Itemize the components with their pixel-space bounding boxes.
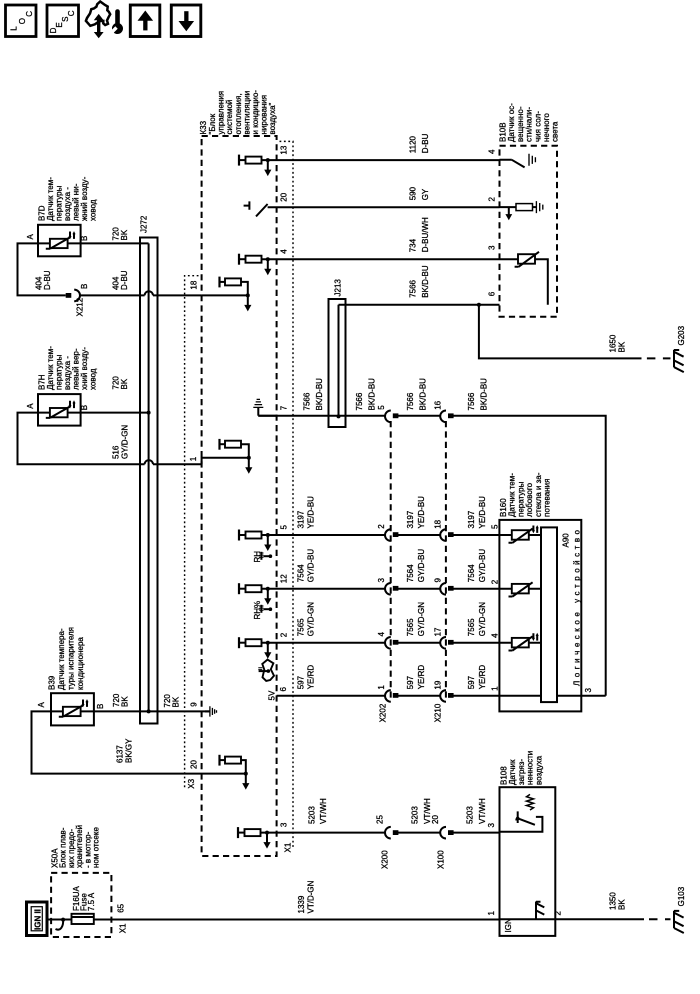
svg-text:16: 16 — [433, 400, 442, 409]
svg-text:лобового: лобового — [525, 482, 534, 517]
svg-text:потевания: потевания — [543, 479, 552, 517]
B160 thermistor at pin 4 — [499, 633, 541, 651]
svg-text:ховод: ховод — [89, 368, 98, 390]
svg-text:Датчик ос-: Датчик ос- — [507, 103, 516, 142]
svg-text:A: A — [26, 403, 35, 409]
svg-text:кондиционера: кондиционера — [76, 637, 85, 690]
svg-text:2: 2 — [490, 579, 499, 584]
B160 thermistor at pin 2 — [499, 582, 541, 596]
svg-text:7566: 7566 — [409, 279, 418, 297]
connector X100 pin 20 symbol — [431, 815, 454, 869]
svg-text:YE/RD: YE/RD — [307, 665, 316, 690]
svg-text:BK/D-BU: BK/D-BU — [421, 265, 430, 298]
svg-text:4: 4 — [490, 633, 499, 638]
svg-text:6: 6 — [279, 687, 288, 692]
svg-text:света: света — [551, 121, 560, 142]
wire 720 BK B7D to J272 — [81, 227, 149, 244]
svg-text:597: 597 — [297, 675, 306, 689]
svg-text:9: 9 — [190, 702, 199, 707]
svg-text:B: B — [80, 405, 89, 410]
svg-text:7.5 A: 7.5 A — [87, 892, 96, 911]
B10B pin 3 internal photo/thermo element — [488, 245, 548, 305]
connector X200 pin 25 symbol — [375, 815, 398, 869]
svg-text:стекла и за-: стекла и за- — [534, 472, 543, 517]
windshield temperature sensor B160 box — [499, 472, 581, 711]
temperature sensor B7D box — [26, 176, 98, 256]
svg-text:IGN II: IGN II — [34, 909, 43, 930]
svg-text:сти/нали-: сти/нали- — [525, 107, 534, 142]
svg-text:516: 516 — [112, 445, 121, 459]
svg-text:3: 3 — [488, 245, 497, 250]
svg-text:4: 4 — [488, 149, 497, 154]
svg-text:X212: X212 — [76, 297, 85, 316]
svg-text:4: 4 — [377, 632, 386, 637]
svg-text:X1: X1 — [118, 923, 127, 933]
svg-text:X202: X202 — [379, 703, 388, 722]
wire 7565 GY/D-GN K33 pin 2 to B160 pin 4 — [262, 602, 500, 643]
svg-text:BK: BK — [120, 696, 129, 707]
svg-text:VT/WH: VT/WH — [478, 798, 487, 824]
svg-text:1650: 1650 — [609, 334, 618, 352]
svg-text:GY/D-BU: GY/D-BU — [307, 549, 316, 583]
svg-text:7565: 7565 — [297, 618, 306, 636]
svg-text:2: 2 — [554, 911, 563, 916]
ground G203 — [674, 325, 686, 372]
svg-text:B: B — [80, 236, 89, 241]
sunlight sensor B10B box — [499, 103, 560, 317]
svg-text:G203: G203 — [677, 325, 686, 345]
K33 pin 2 internal pull-up — [239, 632, 289, 659]
svg-text:12: 12 — [280, 574, 289, 583]
K33 pin 9 internal ground — [190, 702, 217, 717]
svg-text:YE/D-BU: YE/D-BU — [478, 496, 487, 529]
wire 7566 BK/D-BU K33 pin 7 to J213 to X202/X210 and down to B160 pin 3 — [258, 378, 605, 696]
svg-text:5203: 5203 — [411, 806, 420, 824]
K33 pin 5 internal pull-up — [239, 525, 289, 552]
connector X210 pin 18 symbol — [433, 519, 453, 541]
svg-text:BK/D-BU: BK/D-BU — [480, 378, 489, 411]
svg-text:O: O — [18, 18, 27, 24]
svg-text:597: 597 — [406, 675, 415, 689]
connector X212 — [66, 284, 89, 317]
svg-text:J213: J213 — [334, 279, 343, 297]
IGN II badge — [27, 902, 48, 936]
wire 3197 YE/D-BU K33 pin 5 to B160 pin 5 — [262, 496, 500, 535]
svg-text:3197: 3197 — [467, 510, 476, 528]
svg-text:20: 20 — [280, 192, 289, 201]
svg-text:VT/WH: VT/WH — [319, 798, 328, 824]
toolbar button down-arrow — [171, 5, 201, 37]
svg-text:нечного: нечного — [542, 113, 551, 142]
svg-text:6137: 6137 — [116, 745, 125, 763]
svg-text:A: A — [26, 234, 35, 240]
K33 5V reference symbol — [258, 660, 276, 701]
svg-text:2: 2 — [488, 197, 497, 202]
svg-text:6: 6 — [488, 291, 497, 296]
wire 404 D-BU B7D pin A to X212 — [18, 243, 66, 295]
svg-text:ном отсеке: ном отсеке — [92, 827, 101, 868]
svg-text:вещенно-: вещенно- — [516, 106, 525, 142]
svg-text:J272: J272 — [140, 215, 149, 233]
toolbar icon vehicle-with-arrows-and-wrench — [86, 2, 123, 39]
wire IGN II to fuse F16UA — [47, 919, 72, 921]
svg-text:4: 4 — [280, 249, 289, 254]
svg-text:YE/D-BU: YE/D-BU — [307, 496, 316, 529]
svg-text:D-BU: D-BU — [43, 270, 52, 290]
svg-text:3: 3 — [377, 578, 386, 583]
K33 RH humidity element symbol — [253, 551, 272, 563]
svg-text:GY/D-GN: GY/D-GN — [307, 602, 316, 636]
svg-text:5203: 5203 — [466, 806, 475, 824]
svg-text:воздуха: воздуха — [534, 755, 543, 785]
wire 6137 BK/GY B39 pin A to K33 X3 pin 20 — [32, 711, 246, 773]
in-line connector X202 dashed line — [379, 421, 391, 722]
svg-text:7564: 7564 — [467, 564, 476, 582]
svg-text:GY: GY — [421, 188, 430, 200]
svg-text:1120: 1120 — [409, 135, 418, 153]
svg-text:65: 65 — [117, 903, 126, 912]
svg-text:3: 3 — [487, 823, 496, 828]
svg-text:D-BU: D-BU — [120, 270, 129, 290]
svg-text:ховод: ховод — [89, 199, 98, 221]
svg-text:19: 19 — [433, 680, 442, 689]
svg-text:GY/D-GN: GY/D-GN — [121, 425, 130, 459]
svg-text:25: 25 — [375, 815, 384, 824]
svg-text:7: 7 — [280, 405, 289, 410]
svg-text:GY/D-GN: GY/D-GN — [417, 602, 426, 636]
B160 pin 3 wire from A90 to 7566 vertical — [557, 688, 606, 696]
toolbar button DESC — [47, 5, 79, 37]
svg-text:B160: B160 — [499, 498, 508, 517]
wire 516 GY/D-GN B7H pin A to K33 pin 1 with hop over J272 — [18, 413, 202, 465]
B108 pin 3 internal heater element — [487, 794, 542, 831]
svg-text:загряз-: загряз- — [517, 759, 526, 785]
svg-text:5: 5 — [377, 405, 386, 410]
svg-text:C: C — [67, 10, 76, 16]
toolbar button LOC — [6, 5, 37, 37]
K33 pin 20 (X3) internal pull-up — [190, 755, 250, 790]
svg-text:5: 5 — [280, 525, 289, 530]
connector X210 pin 19 symbol — [433, 680, 453, 702]
svg-text:1: 1 — [377, 685, 386, 690]
svg-text:К33: К33 — [199, 120, 208, 134]
svg-text:GY/D-GN: GY/D-GN — [478, 602, 487, 636]
toolbar button up-arrow — [130, 5, 160, 37]
svg-text:D-BU: D-BU — [421, 133, 430, 153]
svg-text:ненности: ненности — [526, 751, 535, 785]
wire 5203 VT/WH K33 X1 pin 3 to B108 pin 3 — [261, 798, 500, 833]
svg-text:L: L — [9, 26, 18, 31]
B160 logic device A90 box — [541, 527, 582, 702]
svg-text:7566: 7566 — [467, 392, 476, 410]
svg-text:G103: G103 — [677, 886, 686, 906]
svg-text:2: 2 — [377, 524, 386, 529]
svg-text:BK: BK — [618, 899, 627, 910]
svg-text:BK/GY: BK/GY — [124, 738, 133, 763]
svg-text:18: 18 — [190, 280, 199, 289]
svg-text:VT/D-GN: VT/D-GN — [307, 880, 316, 913]
B7H thermistor symbol — [38, 400, 81, 418]
HVAC control module K33 box — [202, 136, 277, 856]
svg-text:YE/RD: YE/RD — [478, 665, 487, 690]
svg-text:воздуха": воздуха" — [268, 102, 277, 134]
B108 IGN label and pin 1 — [487, 911, 555, 933]
svg-text:Логическое устройство: Логическое устройство — [573, 529, 582, 686]
svg-text:B: B — [96, 704, 105, 709]
connector X3 dotted line on K33 left edge — [185, 276, 199, 789]
splice pack J213 outline — [329, 279, 346, 427]
K33 label text — [199, 90, 277, 135]
svg-text:590: 590 — [409, 186, 418, 200]
svg-text:туры испарителя: туры испарителя — [67, 627, 76, 690]
J213 internal bus wire — [337, 305, 341, 419]
B108 pin 2 internal chassis ground — [536, 902, 563, 920]
svg-text:1339: 1339 — [297, 895, 306, 913]
svg-text:BK: BK — [120, 229, 129, 240]
wire 404 D-BU X212 to K33 pin 18 with hop over J272 — [80, 270, 202, 295]
svg-text:X3: X3 — [187, 778, 196, 788]
svg-text:5: 5 — [490, 524, 499, 529]
svg-text:7565: 7565 — [467, 618, 476, 636]
wire 7564 GY/D-BU K33 pin 12 to B160 pin 2 — [262, 549, 500, 589]
svg-text:Датчик темпера-: Датчик темпера- — [57, 628, 66, 690]
bus tap curl in X50A — [56, 918, 66, 930]
wire 734 D-BU/WH K33 pin 4 to B10B pin 3 — [262, 217, 500, 259]
svg-text:B108: B108 — [500, 766, 509, 785]
K33 pin 13 internal pull-up — [239, 145, 289, 176]
K33 pin 4 internal pull-up — [239, 249, 289, 276]
svg-text:5V: 5V — [268, 690, 277, 700]
connector X202 pin 3 symbol — [377, 578, 399, 595]
svg-text:20: 20 — [190, 760, 199, 769]
B39 thermistor symbol — [51, 699, 94, 717]
wire 590 GY K33 pin 20 to B10B pin 2 — [268, 186, 500, 207]
wire 1339 VT/D-GN fuse to B108 pin 1 — [94, 880, 500, 933]
splice pack J272 outline — [140, 215, 158, 723]
temperature sensor B7H box — [26, 346, 98, 426]
K33 pin 3 (X1) internal pull-up — [238, 822, 289, 849]
svg-text:1350: 1350 — [609, 892, 618, 910]
svg-text:X100: X100 — [436, 850, 445, 869]
wire 720 BK B7H to J272 — [81, 376, 149, 413]
svg-text:18: 18 — [433, 519, 442, 528]
svg-text:B10B: B10B — [499, 122, 508, 142]
B160 thermistor at pin 5 — [499, 525, 541, 543]
svg-text:7566: 7566 — [355, 392, 364, 410]
K33 RH% element symbol — [253, 601, 272, 620]
K33 pin 18 internal pull-up — [190, 277, 252, 312]
svg-text:5203: 5203 — [308, 806, 317, 824]
svg-text:3: 3 — [584, 688, 593, 693]
svg-text:GY/D-BU: GY/D-BU — [417, 549, 426, 583]
svg-text:BK/D-BU: BK/D-BU — [419, 378, 428, 411]
svg-text:3197: 3197 — [297, 510, 306, 528]
svg-text:7564: 7564 — [297, 564, 306, 582]
svg-text:Датчик: Датчик — [508, 759, 517, 785]
wire 1120 D-BU K33 pin 13 to B10B pin 4 — [262, 133, 500, 160]
svg-text:E: E — [55, 22, 64, 27]
svg-text:2: 2 — [280, 632, 289, 637]
connector X202 pin 2 symbol — [377, 524, 399, 541]
wire 597 YE/RD K33 pin 6 to B160 pin 1 — [277, 665, 500, 696]
air quality sensor B108 box — [500, 751, 556, 936]
svg-text:BK: BK — [618, 341, 627, 352]
connector X210 pin 16 symbol on 7566 wire — [433, 400, 453, 422]
K33 pin 1 internal pull-up with edge jog — [189, 439, 252, 474]
svg-text:7566: 7566 — [406, 392, 415, 410]
svg-text:597: 597 — [467, 675, 476, 689]
wire 1650 BK to ground G203 — [479, 305, 671, 359]
svg-text:S: S — [61, 17, 70, 22]
wire 7566 BK/D-BU J213 to B10B pin 6 — [339, 265, 500, 307]
svg-text:GY/D-BU: GY/D-BU — [478, 549, 487, 583]
svg-text:7566: 7566 — [303, 392, 312, 410]
fuse F16UA 7.5 A — [72, 885, 97, 924]
in-line connector X210 dashed line — [434, 421, 446, 722]
svg-text:A: A — [37, 702, 46, 708]
svg-text:C: C — [25, 11, 34, 17]
connector X210 pin 9 symbol — [433, 578, 453, 595]
J272 internal bus wire — [147, 243, 151, 713]
fuse block X50A dashed box — [51, 825, 112, 937]
K33 pin 12 internal pull-up — [239, 574, 289, 605]
temperature sensor B39 box — [37, 627, 105, 725]
svg-text:X210: X210 — [434, 703, 443, 722]
svg-text:7564: 7564 — [406, 564, 415, 582]
svg-text:BK: BK — [171, 696, 180, 707]
B10B pin 4 internal switch to ground — [488, 149, 536, 167]
svg-text:1: 1 — [189, 456, 198, 461]
svg-text:пературы: пературы — [516, 481, 525, 517]
svg-text:X200: X200 — [380, 850, 389, 869]
svg-text:YE/RD: YE/RD — [417, 665, 426, 690]
ground G103 — [674, 886, 686, 933]
connector X1 dotted line on K33 right edge — [280, 141, 294, 852]
svg-text:B: B — [80, 284, 89, 289]
svg-text:D-BU/WH: D-BU/WH — [421, 217, 430, 252]
connector X210 pin 17 symbol — [433, 627, 453, 649]
svg-text:3: 3 — [280, 822, 289, 827]
svg-text:BK/D-BU: BK/D-BU — [367, 378, 376, 411]
svg-text:X1: X1 — [284, 842, 293, 852]
svg-text:734: 734 — [409, 238, 418, 252]
K33 pin 7 internal ground — [253, 399, 288, 415]
connector X202 pin 4 symbol — [377, 632, 399, 649]
svg-text:20: 20 — [431, 815, 440, 824]
svg-text:YE/D-BU: YE/D-BU — [417, 496, 426, 529]
svg-text:чия сол-: чия сол- — [533, 111, 542, 142]
svg-text:BK/D-BU: BK/D-BU — [315, 378, 324, 411]
svg-text:Датчик тем-: Датчик тем- — [508, 473, 517, 517]
K33 pin 20 internal switch — [244, 192, 289, 216]
svg-text:BK: BK — [120, 378, 129, 389]
B7D thermistor symbol — [38, 231, 81, 249]
B10B pin 2 internal resistor to ground — [488, 197, 543, 221]
svg-text:13: 13 — [280, 145, 289, 154]
connector X202 pin 1 symbol — [377, 685, 399, 702]
svg-text:B39: B39 — [48, 675, 57, 690]
wire 1350 BK B108 pin 2 to ground G103 — [555, 892, 670, 920]
svg-text:1: 1 — [490, 686, 499, 691]
svg-text:1: 1 — [487, 911, 496, 916]
wire 720 BK B39 through J272 to K33 pin 9 — [94, 693, 210, 711]
B160 pin 1 internal wire to A90 — [499, 695, 541, 697]
svg-text:9: 9 — [433, 578, 442, 583]
svg-text:A90: A90 — [562, 533, 571, 548]
svg-text:17: 17 — [433, 627, 442, 636]
svg-text:7565: 7565 — [406, 618, 415, 636]
svg-text:3197: 3197 — [406, 510, 415, 528]
connector X202 pin 5 symbol on 7566 wire — [377, 405, 399, 422]
